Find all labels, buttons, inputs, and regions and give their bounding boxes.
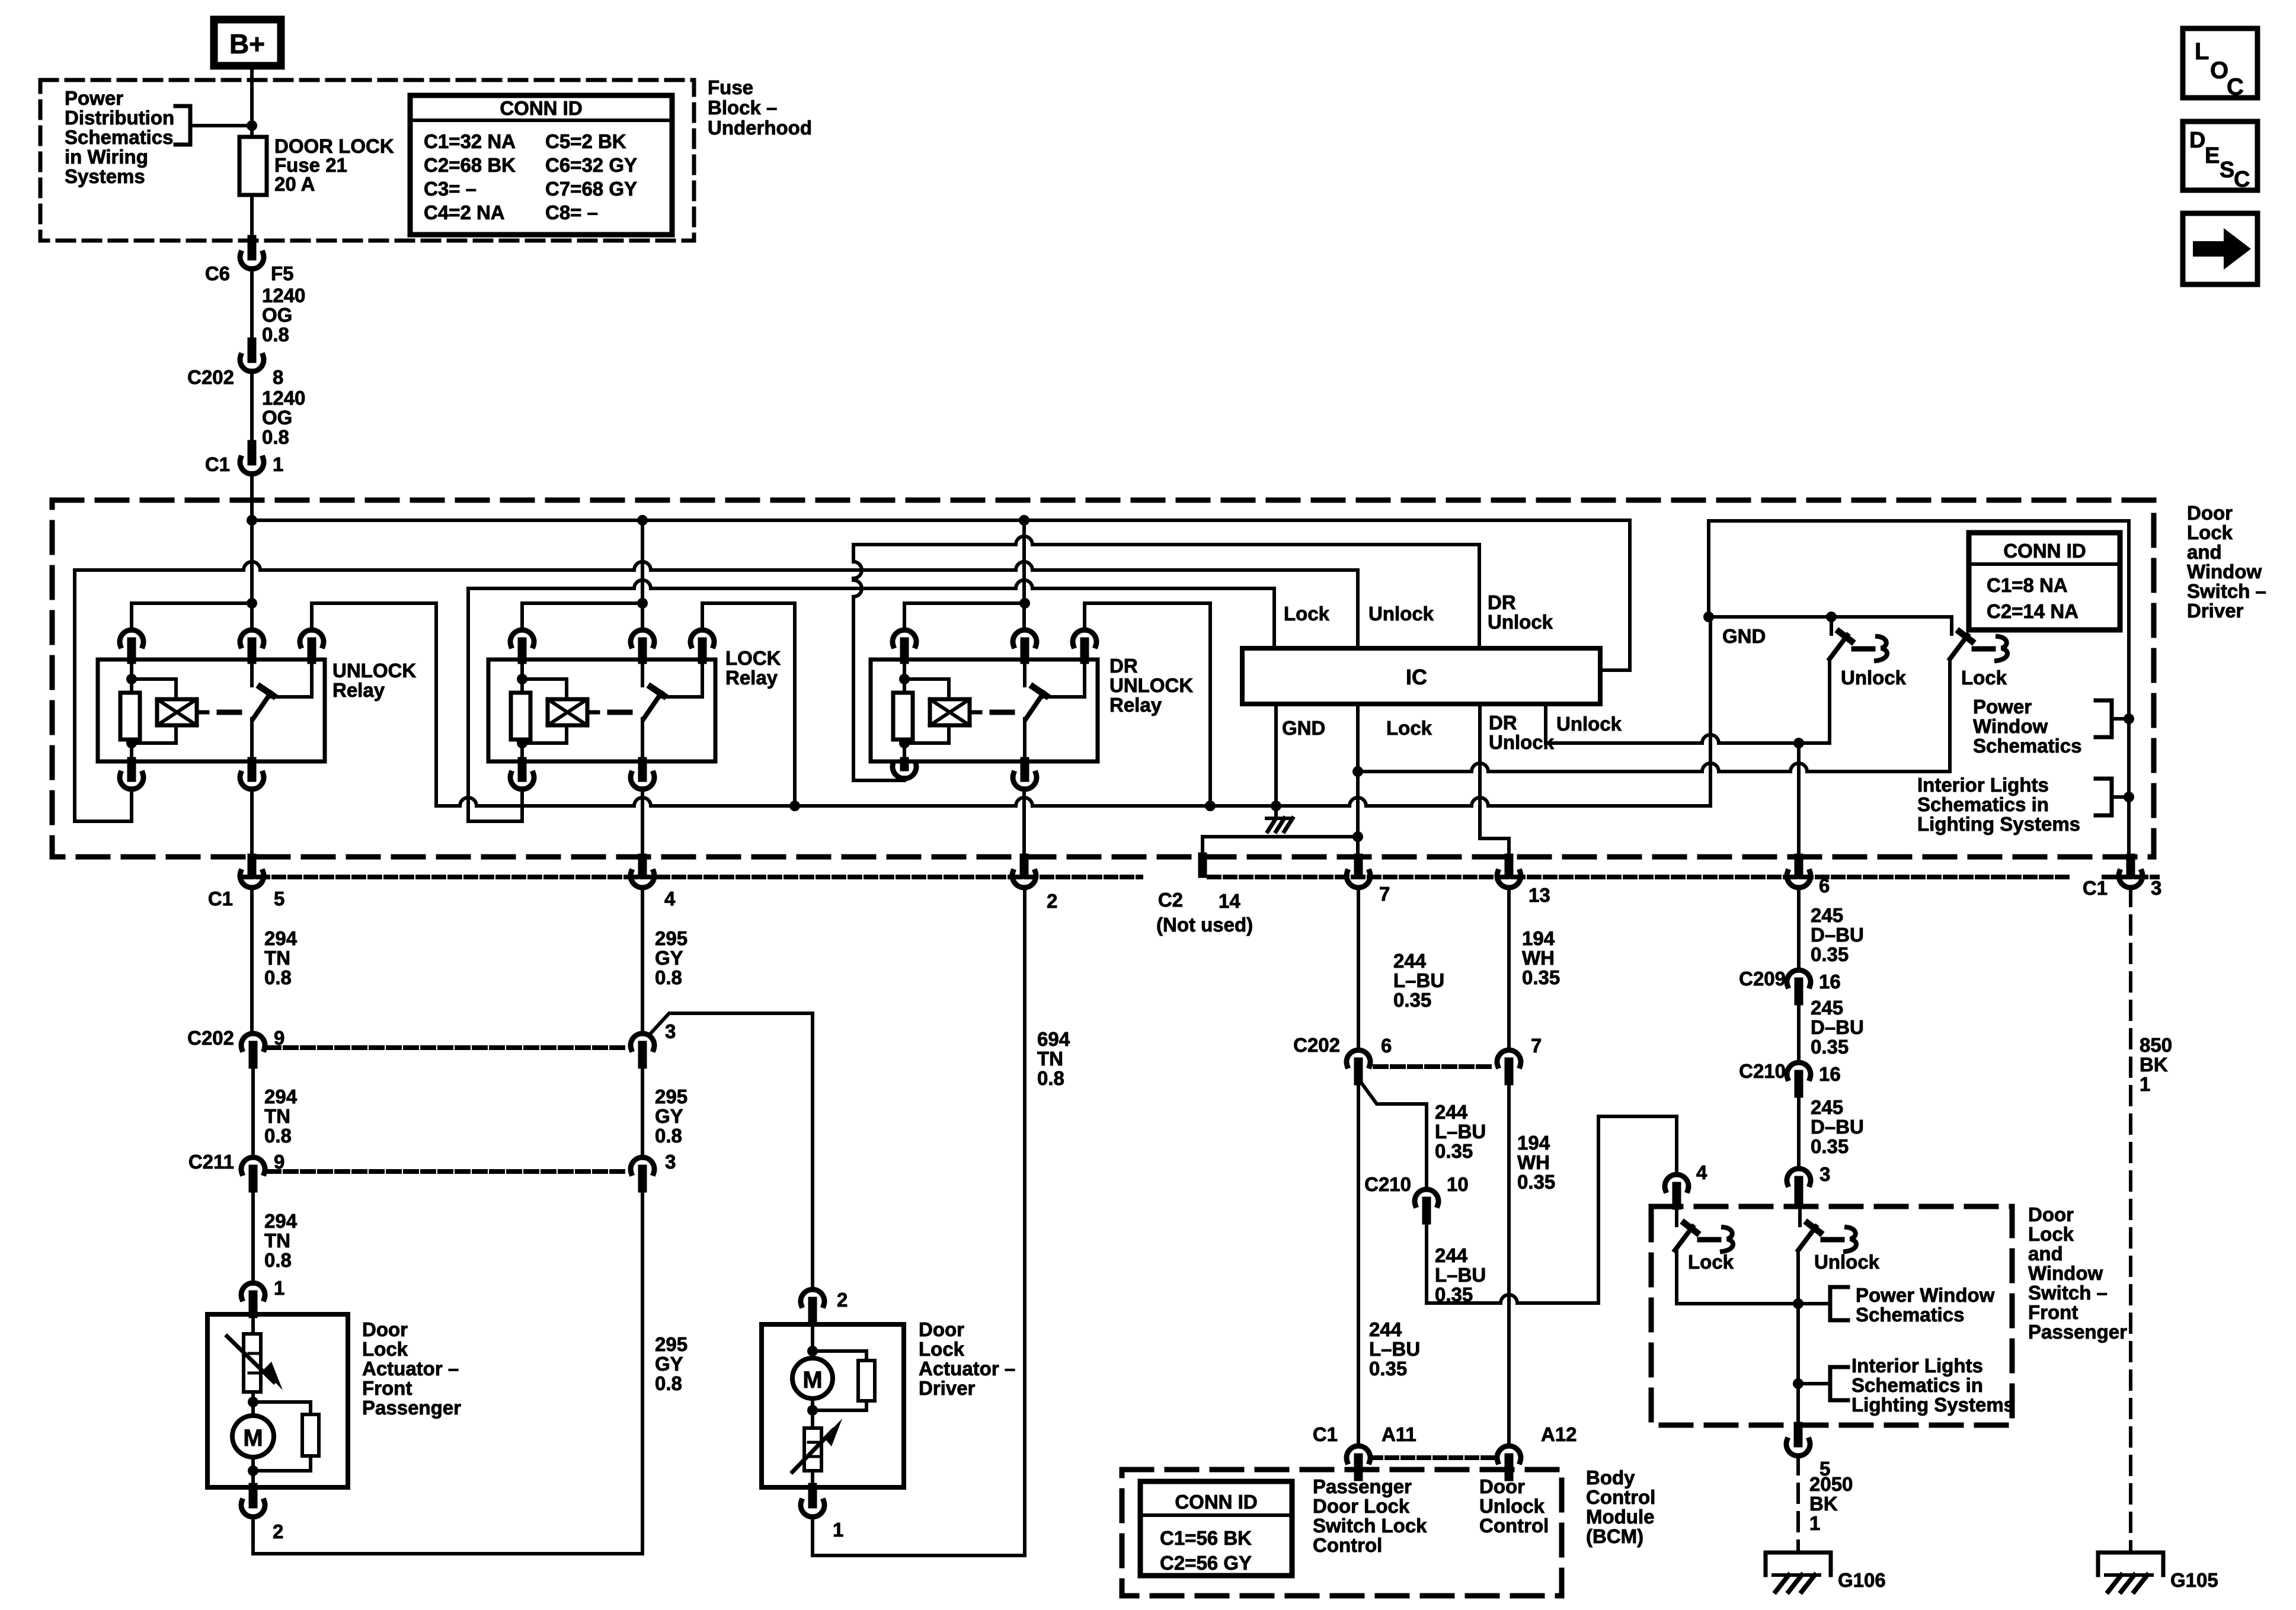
svg-text:694: 694 [1037, 1028, 1070, 1050]
wire dr-unlock R3 coil link bottom [904, 725, 949, 743]
svg-text:GND: GND [1722, 625, 1766, 647]
svg-text:244: 244 [1435, 1244, 1468, 1266]
svg-text:L–BU: L–BU [1435, 1121, 1486, 1142]
svg-text:Underhood: Underhood [708, 117, 812, 139]
junction dot interior lights driver [2124, 792, 2134, 802]
coil lock R1 box [548, 699, 587, 725]
junction dot driver actuator top [807, 1346, 818, 1356]
svg-text:Relay: Relay [332, 679, 385, 701]
wire 244 to A11 [1357, 1081, 1360, 1446]
connector C202 pin 6 dome [1347, 1050, 1370, 1066]
wire unlock R2 header corner to coil pin [130, 603, 133, 629]
svg-text:Front: Front [2028, 1301, 2078, 1323]
svg-text:D: D [2189, 128, 2205, 153]
connector C1 pin 1 pin [248, 444, 257, 461]
svg-text:Lock: Lock [1284, 603, 1330, 625]
svg-text:C202: C202 [187, 1027, 234, 1049]
wire passenger shunt link top [253, 1402, 311, 1414]
bracket interior lights driver [2096, 779, 2112, 815]
relay dr-unlock R3 box [871, 660, 1098, 761]
svg-text:L–BU: L–BU [1393, 969, 1444, 991]
svg-text:Lighting Systems: Lighting Systems [1851, 1394, 2014, 1416]
connector C1 pin 7 cup [1347, 872, 1370, 888]
wire C1-1 to junction [250, 473, 254, 520]
junction dot unlock R2 header B+ [247, 598, 257, 609]
svg-text:CONN ID: CONN ID [2003, 540, 2086, 562]
wire passenger switch common [1796, 1250, 1800, 1425]
conn id table fuse block [410, 95, 672, 235]
svg-text:Passenger: Passenger [362, 1397, 461, 1419]
svg-text:3: 3 [2151, 877, 2161, 899]
wire unlock R2 relay coil header [132, 601, 252, 605]
wire 1240 OG segment 2 [250, 370, 254, 444]
svg-text:Unlock: Unlock [1488, 611, 1553, 633]
connector lock R1 top-left dome [510, 630, 534, 646]
wire 1240 OG segment 1 [250, 268, 254, 342]
svg-text:C210: C210 [1364, 1173, 1411, 1195]
wire lock R1 actuation dash [610, 710, 630, 715]
wire unlock R2 switch output [250, 719, 254, 761]
svg-text:2: 2 [273, 1521, 283, 1542]
svg-text:Schematics: Schematics [1856, 1304, 1964, 1326]
rheostat passenger actuator [244, 1334, 261, 1392]
wire ic lock signal pin down to connector 7 [1356, 704, 1360, 858]
wire unlock R2 coil link top [132, 679, 176, 699]
junction dot lock wrap on gnd rail [789, 801, 800, 811]
svg-text:20 A: 20 A [274, 173, 315, 195]
svg-text:D–BU: D–BU [1811, 924, 1864, 946]
connector actuator front passenger pin 1 dome [241, 1283, 265, 1299]
svg-text:E: E [2205, 143, 2220, 168]
svg-text:UNLOCK: UNLOCK [332, 660, 416, 681]
svg-text:0.8: 0.8 [264, 1249, 292, 1271]
svg-text:Actuator –: Actuator – [362, 1358, 459, 1379]
svg-text:Power: Power [65, 87, 123, 109]
svg-text:C2=14 NA: C2=14 NA [1987, 600, 2078, 622]
junction dot dr wrap on gnd rail [1205, 801, 1216, 811]
switch lock R1 arm [644, 693, 661, 719]
svg-text:Lighting Systems: Lighting Systems [1917, 813, 2080, 835]
svg-text:Block –: Block – [708, 97, 777, 119]
svg-text:C7=68 GY: C7=68 GY [545, 178, 637, 200]
wire unlock R2 coil upper [130, 660, 133, 693]
svg-text:C2=68 BK: C2=68 BK [424, 154, 516, 176]
switch lock R1 arm tick [651, 687, 664, 696]
connector unlock R2 top-middle dome [240, 630, 264, 646]
svg-text:Door: Door [1479, 1475, 1525, 1497]
wire passenger unlock contact stub [1798, 1205, 1802, 1225]
wire lock R1 relay NC wrap [702, 603, 795, 806]
switch passenger lock arm tick [1684, 1223, 1697, 1233]
connector lock R1 top-right dome [690, 630, 714, 646]
power symbol B+ box [214, 20, 281, 66]
resistor driver shunt [858, 1361, 875, 1401]
wire unlock R2 relay NC wrap [312, 603, 436, 806]
svg-text:Distribution: Distribution [65, 107, 174, 129]
wire rail R3 lock coil return [468, 580, 1274, 588]
wire unlock R2 switch NO link [270, 660, 312, 697]
svg-text:0.35: 0.35 [1435, 1140, 1473, 1162]
connector C202 pin 3 dome [631, 1033, 654, 1049]
wire lock R1 coil actuation stub [587, 710, 598, 715]
svg-text:C2: C2 [1158, 889, 1183, 911]
connector actuator passenger pin 2 cup [241, 1501, 265, 1517]
rheostat driver arrow [792, 1430, 833, 1472]
svg-text:C6=32 GY: C6=32 GY [545, 154, 637, 176]
connector lock R1 top-middle pin [638, 642, 647, 660]
switch driver lock arm tick [1959, 632, 1972, 641]
svg-text:0.8: 0.8 [262, 324, 289, 345]
wire lock R1 coil link bottom [522, 725, 567, 743]
svg-text:Fuse: Fuse [708, 76, 753, 98]
svg-text:0.35: 0.35 [1369, 1358, 1407, 1379]
switch unlock R2 arm [253, 693, 271, 719]
svg-text:C209: C209 [1739, 968, 1786, 990]
svg-text:C1=32 NA: C1=32 NA [424, 130, 516, 152]
connector C211 pin 3 pin [638, 1169, 647, 1188]
wire dr output to C1-2 [1022, 788, 1026, 859]
svg-text:Driver: Driver [919, 1377, 976, 1399]
svg-text:294: 294 [264, 927, 298, 949]
wire C202 row dashed right [1375, 1064, 1494, 1069]
switch driver unlock arm [1830, 635, 1847, 659]
wire unlock R2 coil link bottom [132, 725, 176, 743]
bracket power window schematics driver [2096, 700, 2112, 737]
wire 694 TN upper [1023, 888, 1027, 1084]
svg-text:A12: A12 [1541, 1423, 1577, 1445]
svg-text:C1: C1 [2083, 877, 2108, 899]
svg-text:Systems: Systems [65, 165, 145, 187]
connector passenger switch pin 3 pin [1795, 1180, 1803, 1199]
svg-text:C2=56 GY: C2=56 GY [1160, 1552, 1252, 1574]
wire 194 WH upper [1507, 888, 1511, 1050]
svg-text:10: 10 [1447, 1173, 1469, 1195]
svg-text:4: 4 [1696, 1161, 1707, 1183]
wire unlock output to C1-5 [250, 788, 254, 859]
svg-text:Lock: Lock [2187, 521, 2233, 543]
svg-text:0.35: 0.35 [1811, 943, 1849, 965]
svg-text:7: 7 [1531, 1035, 1542, 1057]
svg-text:Body: Body [1586, 1467, 1635, 1489]
svg-text:245: 245 [1811, 1096, 1843, 1118]
svg-text:Front: Front [362, 1377, 412, 1399]
svg-text:Door: Door [919, 1318, 964, 1340]
svg-text:0.35: 0.35 [1435, 1283, 1473, 1305]
svg-text:O: O [2210, 57, 2228, 84]
svg-text:244: 244 [1393, 950, 1427, 972]
wire dr-unlock R3 coil lower [903, 740, 906, 761]
connector passenger switch pin 3 dome [1787, 1169, 1811, 1185]
junction dot ic gnd on rail [1271, 801, 1281, 811]
svg-text:LOCK: LOCK [725, 647, 781, 669]
svg-text:A11: A11 [1382, 1423, 1416, 1445]
switch passenger unlock arm [1798, 1227, 1816, 1250]
svg-text:(Not used): (Not used) [1156, 914, 1253, 936]
connector C1 pin A11 pin [1354, 1458, 1363, 1477]
connector unlock R2 bottom-middle pin [248, 761, 257, 777]
svg-text:245: 245 [1811, 997, 1843, 1019]
wire connector row dotted line B [1209, 875, 2068, 879]
op-amp IC box [1242, 648, 1600, 704]
icon box arrow [2183, 213, 2257, 284]
wire rheostat to motor [251, 1392, 255, 1416]
svg-text:3: 3 [1819, 1163, 1830, 1185]
connector lock R1 bottom-left cup [510, 773, 534, 789]
wire dr-unlock R3 relay coil header [904, 601, 1025, 605]
switch passenger lock arm [1675, 1227, 1693, 1250]
svg-text:245: 245 [1811, 904, 1843, 926]
wire lock R1 switch common stub [641, 660, 644, 686]
svg-text:C1: C1 [208, 888, 233, 910]
wire 194 WH lower [1507, 1081, 1511, 1446]
switch unlock R2 arm tick [260, 687, 273, 696]
fuse F21 DOOR LOCK 20A [239, 137, 267, 195]
wire dr-unlock relay feed vertical [1022, 520, 1026, 629]
wire 295 GY segment 2 [641, 1064, 644, 1157]
door lock actuator driver box [762, 1324, 904, 1487]
svg-text:(BCM): (BCM) [1586, 1525, 1643, 1547]
svg-text:16: 16 [1819, 1063, 1841, 1085]
bracket power window schematics passenger [1798, 1302, 1830, 1305]
connector C202 pin 8 pin [248, 342, 257, 359]
wire motor to rheostat driver [811, 1398, 814, 1428]
svg-text:7: 7 [1379, 883, 1390, 905]
wire gnd rail up to switch gnd [1709, 617, 1712, 806]
wire B+ to fuse block [250, 66, 254, 137]
junction dot B+ rail at feed [247, 515, 257, 526]
svg-text:1: 1 [273, 453, 283, 475]
svg-text:0.35: 0.35 [1811, 1036, 1849, 1058]
svg-text:Interior Lights: Interior Lights [1851, 1355, 1983, 1377]
wire gnd rail RB1 [436, 798, 1710, 806]
svg-text:DR: DR [1489, 712, 1517, 734]
connector C209 pin 16 pin [1795, 982, 1803, 1001]
switch passenger unlock dash [1823, 1237, 1842, 1243]
switch driver unlock detent [1876, 636, 1887, 661]
connector C209 pin 16 dome [1787, 970, 1811, 986]
rheostat driver actuator [804, 1428, 821, 1471]
switch driver unlock actuation dash [1854, 646, 1873, 652]
svg-text:6: 6 [1819, 875, 1830, 897]
wire dr-unlock R3 switch common stub [1023, 660, 1027, 686]
conn id table switch driver [1969, 533, 2120, 630]
svg-text:TN: TN [264, 947, 290, 969]
wire motor to box bottom [251, 1457, 255, 1487]
svg-text:Passenger: Passenger [1313, 1475, 1412, 1497]
svg-text:2: 2 [837, 1289, 848, 1311]
resistor lock R1 coil [511, 693, 530, 740]
wire 245 D-BU segment 3 [1797, 1093, 1801, 1169]
svg-text:Interior Lights: Interior Lights [1917, 774, 2049, 796]
svg-text:3: 3 [665, 1151, 676, 1173]
connector dr-unlock R3 bottom-left pin [900, 761, 909, 767]
svg-text:0.35: 0.35 [1522, 966, 1560, 988]
connector passenger switch pin 4 pin [1673, 1186, 1681, 1205]
junction dot dr-unlock R3 coil top [899, 674, 910, 684]
junction dot dr-unlock R3 header B+ [1019, 598, 1030, 609]
wire dr-unlock R3 coil upper [903, 660, 906, 693]
switch driver lock detent [1997, 636, 2007, 661]
resistor dr-unlock R3 coil [893, 693, 913, 740]
wire unlock relay feed vertical [250, 520, 254, 629]
svg-text:L–BU: L–BU [1369, 1338, 1420, 1360]
svg-text:C6: C6 [205, 263, 230, 284]
connector C1 pin 4 pin [638, 858, 647, 875]
svg-text:L: L [2195, 39, 2209, 65]
coil unlock R2 X [157, 699, 197, 725]
svg-text:194: 194 [1522, 927, 1555, 949]
wire driver shunt link top [813, 1351, 866, 1361]
rheostat passenger arrow [227, 1336, 274, 1382]
svg-text:0.8: 0.8 [655, 966, 682, 988]
wire unlock R2 actuation dash [219, 710, 239, 715]
svg-text:0.8: 0.8 [264, 966, 292, 988]
svg-text:13: 13 [1528, 884, 1550, 906]
svg-text:5: 5 [274, 888, 284, 910]
door lock actuator front passenger box [207, 1314, 348, 1487]
svg-text:Unlock: Unlock [1841, 667, 1907, 689]
junction dot lock R1 coil top [517, 674, 527, 684]
wire 244 branch to C210 [1361, 1082, 1427, 1189]
svg-text:8: 8 [273, 366, 283, 388]
svg-text:C3= –: C3= – [424, 178, 477, 200]
svg-text:DR: DR [1109, 655, 1138, 677]
connector unlock R2 top-right pin [308, 642, 316, 660]
connector C1 pin 7 pin [1354, 858, 1363, 875]
wire rail R4 dr-unlock coil return [853, 536, 1479, 545]
wire ic dr-unlock pin to connector 13 [1480, 704, 1509, 858]
svg-text:Window: Window [2028, 1262, 2103, 1284]
relay lock R1 box [488, 660, 715, 761]
svg-text:Power Window: Power Window [1856, 1284, 1995, 1306]
connector C211 pin 9 dome [241, 1157, 265, 1173]
svg-text:S: S [2220, 158, 2234, 183]
svg-text:F5: F5 [271, 263, 294, 284]
svg-text:C1: C1 [1313, 1423, 1338, 1445]
connector actuator driver pin 1 cup [801, 1501, 824, 1517]
connector actuator driver pin 2 dome [801, 1289, 824, 1305]
svg-text:Door: Door [362, 1318, 408, 1340]
wire lock R1 switch output [641, 719, 644, 761]
svg-text:OG: OG [262, 304, 292, 326]
wire lock R1 coil link top [522, 679, 567, 699]
wire switch pack gnd outline [1709, 521, 2129, 858]
svg-text:Schematics: Schematics [65, 126, 173, 148]
svg-text:GY: GY [655, 947, 683, 969]
body control module dashed box [1122, 1470, 1562, 1596]
svg-text:in Wiring: in Wiring [65, 146, 148, 168]
wire unlock R2 switch common stub [250, 660, 254, 686]
svg-text:Unlock: Unlock [1556, 713, 1622, 735]
svg-text:194: 194 [1517, 1132, 1550, 1154]
svg-text:Unlock: Unlock [1368, 603, 1434, 625]
connector C1 pin 3 cup [2119, 872, 2142, 888]
svg-text:Driver: Driver [2187, 600, 2244, 622]
junction dot passenger actuator bottom [248, 1465, 258, 1476]
wire dr-unlock R3 switch output [1023, 719, 1027, 761]
svg-text:C202: C202 [187, 366, 234, 388]
svg-text:Power: Power [1973, 696, 2032, 718]
switch passenger lock dash [1700, 1237, 1719, 1243]
svg-text:WH: WH [1517, 1151, 1550, 1173]
relay unlock R2 box [98, 660, 325, 761]
wire gnd node line [1709, 615, 1952, 619]
motor M driver [792, 1358, 833, 1398]
door lock and window switch front passenger dashed box [1651, 1206, 2012, 1425]
bracket power distribution [175, 106, 190, 145]
svg-text:1240: 1240 [262, 284, 305, 306]
connector C202 pin 3 pin [638, 1045, 647, 1064]
svg-text:Unlock: Unlock [1479, 1495, 1545, 1517]
svg-text:OG: OG [262, 406, 292, 428]
wire dr-unlock coil return left leg [853, 545, 862, 780]
wire C211 row dashed [268, 1169, 628, 1174]
connector unlock R2 bottom-middle cup [240, 773, 264, 789]
svg-text:M: M [802, 1367, 822, 1393]
svg-text:244: 244 [1369, 1318, 1402, 1340]
svg-text:G106: G106 [1838, 1569, 1886, 1591]
svg-text:BK: BK [1809, 1493, 1838, 1515]
wire ic unlock pin to unlock switch [1544, 704, 1547, 743]
svg-text:294: 294 [264, 1086, 298, 1108]
svg-text:C1: C1 [205, 453, 230, 475]
junction dot passenger ils [1793, 1378, 1803, 1389]
svg-text:C1=56 BK: C1=56 BK [1160, 1527, 1252, 1549]
wire 2050 BK to ground [1796, 1456, 1800, 1553]
switch driver lock arm [1950, 635, 1968, 659]
svg-text:Schematics in: Schematics in [1917, 793, 2049, 815]
svg-text:and: and [2028, 1243, 2063, 1265]
svg-text:Door: Door [2028, 1204, 2074, 1225]
connector C1 pin A11 dome [1347, 1446, 1370, 1462]
svg-text:850: 850 [2140, 1034, 2172, 1056]
coil dr-unlock R3 X [930, 699, 970, 725]
svg-text:0.35: 0.35 [1393, 989, 1431, 1011]
connector actuator driver pin 1 pin [808, 1487, 817, 1504]
wire A11 A12 row dashed [1371, 1455, 1499, 1460]
connector unlock R2 top-left dome [120, 630, 143, 646]
wire 245 D-BU segment 2 [1797, 1001, 1801, 1062]
svg-text:0.8: 0.8 [1037, 1067, 1064, 1089]
wire connector row dotted line A [242, 875, 1141, 879]
connector C202 pin 7 dome [1497, 1050, 1521, 1066]
svg-text:Window: Window [1973, 715, 2048, 737]
svg-text:TN: TN [264, 1105, 290, 1127]
wire C210-10 to passenger lock switch [1425, 1220, 1428, 1303]
svg-text:C5=2 BK: C5=2 BK [545, 130, 626, 152]
svg-text:0.8: 0.8 [655, 1372, 682, 1394]
svg-text:GND: GND [1282, 717, 1325, 739]
svg-text:B+: B+ [229, 28, 265, 59]
ground G106 [1766, 1553, 1831, 1575]
connector actuator front passenger pin 1 pin [249, 1295, 258, 1314]
switch dr-unlock R3 arm [1026, 693, 1044, 719]
junction dot R1 lock relay feed [637, 515, 648, 526]
svg-text:Lock: Lock [1386, 717, 1432, 739]
svg-text:Relay: Relay [1109, 694, 1162, 716]
connector unlock R2 top-middle pin [248, 642, 257, 660]
svg-text:6: 6 [1381, 1035, 1392, 1057]
wire driver pin to motor [811, 1319, 814, 1359]
connector C202 pin 6 pin [1354, 1062, 1363, 1081]
wire dr-unlock R3 header corner to coil pin [903, 603, 906, 629]
wire dr-unlock R3 actuation dash [992, 710, 1012, 715]
wire branch to driver actuator [649, 1013, 813, 1289]
wire dr-unlock R3 switch NO link [1043, 660, 1085, 697]
conn id table bcm [1140, 1481, 1292, 1576]
wire 244 L-BU upper [1357, 888, 1360, 1050]
svg-text:C1=8 NA: C1=8 NA [1987, 574, 2068, 596]
